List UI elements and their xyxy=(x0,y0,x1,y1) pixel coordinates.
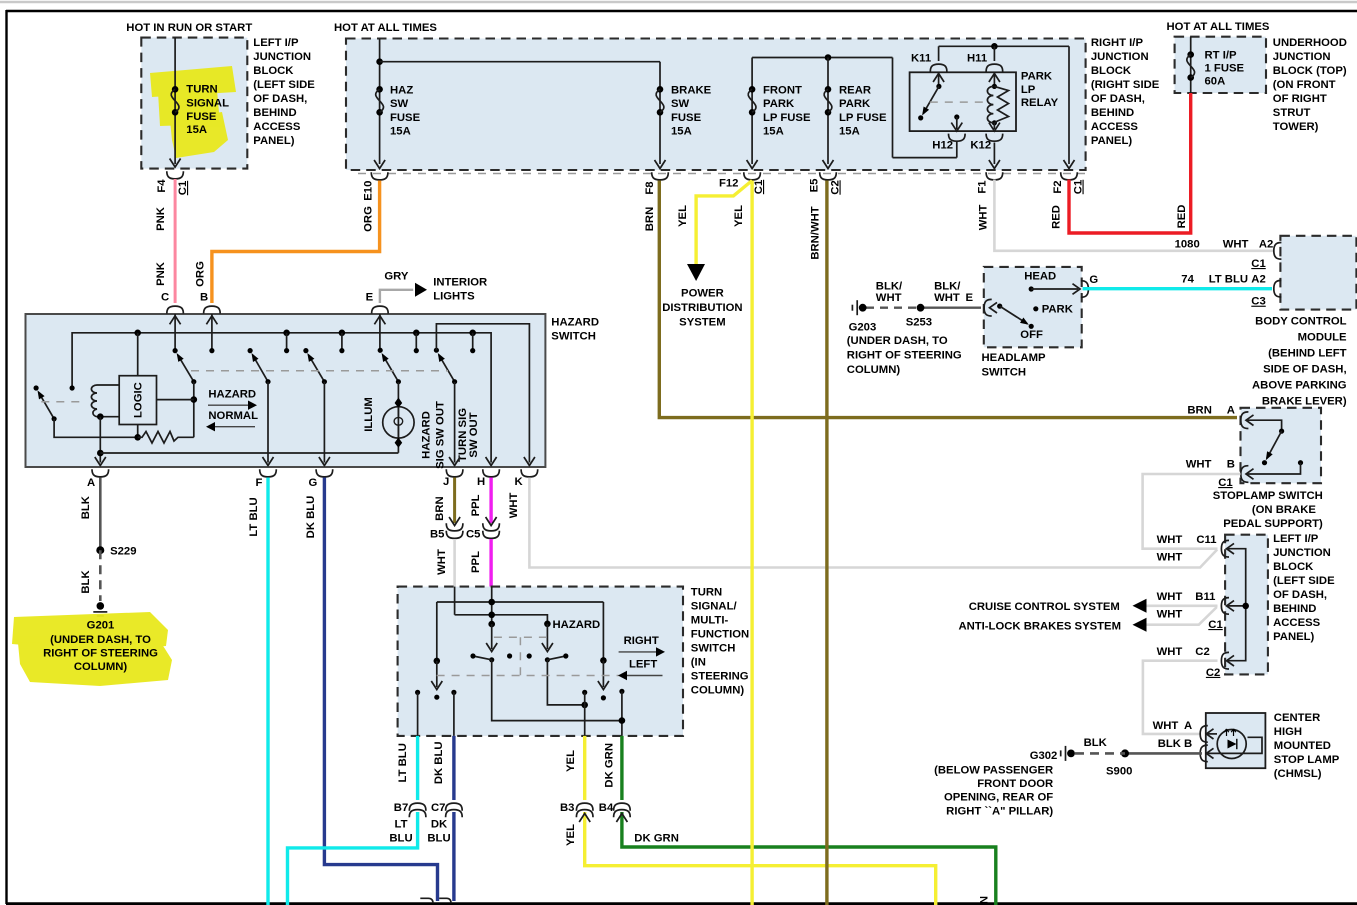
svg-text:POWER: POWER xyxy=(681,287,724,299)
svg-text:PNK: PNK xyxy=(155,261,167,286)
svg-text:MODULE: MODULE xyxy=(1298,332,1347,344)
svg-text:PARK: PARK xyxy=(839,98,871,110)
svg-text:(LEFT SIDE: (LEFT SIDE xyxy=(1273,575,1335,587)
svg-text:SYSTEM: SYSTEM xyxy=(679,317,725,329)
svg-text:BLU: BLU xyxy=(427,833,450,845)
svg-text:HOT AT ALL TIMES: HOT AT ALL TIMES xyxy=(334,22,437,34)
svg-text:C1: C1 xyxy=(1218,477,1232,489)
svg-text:G203: G203 xyxy=(849,322,877,334)
svg-text:BRAKE: BRAKE xyxy=(671,84,712,96)
svg-text:E10: E10 xyxy=(363,181,375,201)
svg-text:ORG: ORG xyxy=(363,206,375,232)
svg-text:WHT: WHT xyxy=(876,292,902,304)
svg-text:1 FUSE: 1 FUSE xyxy=(1205,63,1245,75)
svg-text:WHT: WHT xyxy=(977,204,989,230)
svg-text:G: G xyxy=(309,477,318,489)
svg-text:B11: B11 xyxy=(1195,591,1215,603)
svg-text:BEHIND: BEHIND xyxy=(253,107,296,119)
svg-text:WHT: WHT xyxy=(508,492,520,518)
svg-text:60A: 60A xyxy=(1205,76,1226,88)
svg-text:SWITCH: SWITCH xyxy=(982,367,1027,379)
svg-text:GRY: GRY xyxy=(384,271,409,283)
svg-text:15A: 15A xyxy=(763,126,784,138)
svg-text:WHT: WHT xyxy=(1157,646,1183,658)
svg-text:WHT: WHT xyxy=(934,292,960,304)
svg-text:PARK: PARK xyxy=(1021,71,1053,83)
svg-text:B: B xyxy=(200,292,208,304)
svg-text:(BELOW PASSENGER: (BELOW PASSENGER xyxy=(934,765,1053,777)
svg-text:RIGHT OF STEERING: RIGHT OF STEERING xyxy=(847,350,962,362)
svg-text:SIGNAL: SIGNAL xyxy=(186,97,229,109)
svg-text:A2: A2 xyxy=(1259,239,1273,251)
svg-text:HEAD: HEAD xyxy=(1024,270,1056,282)
svg-text:YEL: YEL xyxy=(733,205,745,227)
svg-text:FRONT DOOR: FRONT DOOR xyxy=(977,778,1053,790)
svg-text:H11: H11 xyxy=(967,53,987,65)
svg-text:C7: C7 xyxy=(431,802,445,814)
svg-text:J: J xyxy=(443,476,449,488)
svg-text:WHT: WHT xyxy=(1186,459,1212,471)
svg-text:S900: S900 xyxy=(1106,765,1132,777)
svg-text:BODY CONTROL: BODY CONTROL xyxy=(1255,316,1347,328)
svg-text:ACCESS: ACCESS xyxy=(253,121,301,133)
svg-text:(LEFT SIDE: (LEFT SIDE xyxy=(253,79,315,91)
svg-text:ABOVE PARKING: ABOVE PARKING xyxy=(1252,380,1347,392)
svg-text:G: G xyxy=(1089,274,1098,286)
svg-text:H12: H12 xyxy=(932,139,953,151)
svg-text:HAZARD: HAZARD xyxy=(421,411,433,459)
svg-text:SW: SW xyxy=(390,98,409,110)
svg-text:F8: F8 xyxy=(644,181,656,194)
svg-text:HOT AT ALL TIMES: HOT AT ALL TIMES xyxy=(1167,21,1270,33)
svg-text:LP FUSE: LP FUSE xyxy=(763,112,811,124)
svg-text:BLU: BLU xyxy=(389,833,412,845)
svg-text:PEDAL SUPPORT): PEDAL SUPPORT) xyxy=(1223,518,1323,530)
svg-text:YEL: YEL xyxy=(677,205,689,227)
svg-text:RIGHT ``A" PILLAR): RIGHT ``A" PILLAR) xyxy=(946,806,1053,818)
svg-text:HEADLAMP: HEADLAMP xyxy=(982,352,1046,364)
svg-text:BEHIND: BEHIND xyxy=(1273,603,1316,615)
svg-text:PNK: PNK xyxy=(155,206,167,231)
svg-text:BLK/: BLK/ xyxy=(934,281,961,293)
svg-text:OF RIGHT: OF RIGHT xyxy=(1273,93,1327,105)
svg-text:BLOCK: BLOCK xyxy=(1273,561,1314,573)
svg-text:15A: 15A xyxy=(671,126,692,138)
svg-text:C3: C3 xyxy=(1251,296,1265,308)
svg-text:HIGH: HIGH xyxy=(1274,726,1302,738)
svg-text:UNDERHOOD: UNDERHOOD xyxy=(1273,37,1347,49)
svg-text:C1: C1 xyxy=(1208,619,1222,631)
svg-text:RIGHT I/P: RIGHT I/P xyxy=(1091,37,1144,49)
svg-text:DISTRIBUTION: DISTRIBUTION xyxy=(662,302,742,314)
svg-text:TOWER): TOWER) xyxy=(1273,121,1319,133)
svg-text:LEFT I/P: LEFT I/P xyxy=(253,37,299,49)
svg-text:LEFT I/P: LEFT I/P xyxy=(1273,533,1319,545)
svg-text:(UNDER DASH, TO: (UNDER DASH, TO xyxy=(50,634,151,646)
svg-text:ACCESS: ACCESS xyxy=(1273,617,1321,629)
svg-text:WHT: WHT xyxy=(1157,609,1183,621)
svg-text:C2: C2 xyxy=(1206,667,1220,679)
svg-text:RELAY: RELAY xyxy=(1021,97,1059,109)
svg-text:LT BLU: LT BLU xyxy=(1209,274,1248,286)
svg-text:COLUMN): COLUMN) xyxy=(691,685,745,697)
svg-text:OF DASH,: OF DASH, xyxy=(253,93,307,105)
svg-text:A: A xyxy=(1227,405,1235,417)
svg-text:REAR: REAR xyxy=(839,84,871,96)
svg-text:G201: G201 xyxy=(87,620,115,632)
svg-text:JUNCTION: JUNCTION xyxy=(1273,547,1331,559)
svg-text:G302: G302 xyxy=(1030,750,1058,762)
svg-text:WHT: WHT xyxy=(1157,534,1183,546)
svg-text:C1: C1 xyxy=(753,180,765,194)
svg-text:JUNCTION: JUNCTION xyxy=(1273,51,1331,63)
svg-text:E: E xyxy=(366,292,374,304)
svg-text:B4: B4 xyxy=(599,802,614,814)
svg-text:PARK: PARK xyxy=(763,98,795,110)
svg-text:RIGHT: RIGHT xyxy=(624,635,659,647)
svg-text:C5: C5 xyxy=(466,528,480,540)
svg-text:FUSE: FUSE xyxy=(186,111,217,123)
svg-text:WHT: WHT xyxy=(1157,552,1183,564)
svg-text:LT BLU: LT BLU xyxy=(397,743,409,782)
svg-text:CENTER: CENTER xyxy=(1274,712,1320,724)
svg-text:1080: 1080 xyxy=(1175,239,1200,251)
svg-text:DK GRN: DK GRN xyxy=(634,833,679,845)
svg-text:DK BLU: DK BLU xyxy=(305,496,317,539)
svg-text:PANEL): PANEL) xyxy=(253,135,294,147)
svg-text:PPL: PPL xyxy=(470,551,482,573)
svg-text:BEHIND: BEHIND xyxy=(1091,107,1134,119)
svg-text:C1: C1 xyxy=(1251,258,1265,270)
svg-text:PPL: PPL xyxy=(470,494,482,516)
svg-text:SWITCH: SWITCH xyxy=(691,643,736,655)
svg-text:HOT IN RUN OR START: HOT IN RUN OR START xyxy=(126,22,252,34)
svg-text:HAZARD: HAZARD xyxy=(551,317,599,329)
svg-text:C1: C1 xyxy=(177,181,189,195)
svg-text:BRN/WHT: BRN/WHT xyxy=(810,206,822,259)
svg-text:E5: E5 xyxy=(809,179,821,193)
svg-text:BRN: BRN xyxy=(1187,405,1211,417)
svg-text:(ON BRAKE: (ON BRAKE xyxy=(1252,504,1316,516)
svg-text:MOUNTED: MOUNTED xyxy=(1274,740,1331,752)
svg-text:SW OUT: SW OUT xyxy=(468,412,480,457)
svg-text:LEFT: LEFT xyxy=(629,659,657,671)
svg-text:RED: RED xyxy=(1050,205,1062,229)
svg-text:FUSE: FUSE xyxy=(671,112,702,124)
svg-text:YEL: YEL xyxy=(565,750,577,772)
svg-text:SW: SW xyxy=(671,98,690,110)
svg-text:F4: F4 xyxy=(156,179,168,193)
svg-text:BLK: BLK xyxy=(80,495,92,519)
svg-text:ILLUM: ILLUM xyxy=(363,397,375,432)
svg-text:HAZARD: HAZARD xyxy=(553,619,601,631)
svg-text:LP FUSE: LP FUSE xyxy=(839,112,887,124)
svg-text:BLK: BLK xyxy=(1158,738,1182,750)
svg-text:LT BLU: LT BLU xyxy=(248,497,260,536)
svg-text:C2: C2 xyxy=(1195,646,1209,658)
svg-text:MULTI-: MULTI- xyxy=(691,615,729,627)
svg-text:BLOCK: BLOCK xyxy=(253,65,294,77)
svg-text:SWITCH: SWITCH xyxy=(551,330,596,342)
svg-text:ORG: ORG xyxy=(194,261,206,287)
svg-text:S229: S229 xyxy=(110,546,136,558)
svg-text:ANTI-LOCK BRAKES SYSTEM: ANTI-LOCK BRAKES SYSTEM xyxy=(958,621,1121,633)
svg-text:A2: A2 xyxy=(1251,274,1265,286)
svg-text:(UNDER DASH, TO: (UNDER DASH, TO xyxy=(847,335,948,347)
svg-text:WHT: WHT xyxy=(1153,720,1179,732)
svg-text:OPENING, REAR OF: OPENING, REAR OF xyxy=(944,792,1053,804)
svg-text:C: C xyxy=(161,292,169,304)
svg-text:F12: F12 xyxy=(719,178,738,190)
svg-text:BLK/: BLK/ xyxy=(876,281,903,293)
svg-text:C1: C1 xyxy=(1073,180,1085,194)
svg-text:FUNCTION: FUNCTION xyxy=(691,629,749,641)
svg-text:SIDE OF DASH,: SIDE OF DASH, xyxy=(1263,364,1346,376)
svg-text:DK GRN: DK GRN xyxy=(979,896,991,905)
svg-text:LT: LT xyxy=(395,819,408,831)
svg-text:LP: LP xyxy=(1021,84,1036,96)
svg-text:K12: K12 xyxy=(970,139,991,151)
svg-text:LIGHTS: LIGHTS xyxy=(433,291,475,303)
svg-text:WHT: WHT xyxy=(1157,591,1183,603)
svg-text:H: H xyxy=(477,476,485,488)
svg-text:BRN: BRN xyxy=(644,207,656,231)
svg-text:WHT: WHT xyxy=(436,549,448,575)
svg-text:F: F xyxy=(256,477,263,489)
svg-text:74: 74 xyxy=(1181,274,1194,286)
svg-text:TURN: TURN xyxy=(691,587,722,599)
svg-text:RT I/P: RT I/P xyxy=(1205,50,1237,62)
svg-text:OF DASH,: OF DASH, xyxy=(1091,93,1145,105)
svg-text:RIGHT OF STEERING: RIGHT OF STEERING xyxy=(43,647,158,659)
svg-text:COLUMN): COLUMN) xyxy=(74,661,128,673)
svg-text:BRAKE LEVER): BRAKE LEVER) xyxy=(1262,396,1347,408)
svg-text:B7: B7 xyxy=(394,802,408,814)
svg-text:STRUT: STRUT xyxy=(1273,107,1311,119)
svg-text:JUNCTION: JUNCTION xyxy=(253,51,311,63)
svg-text:ACCESS: ACCESS xyxy=(1091,121,1139,133)
svg-text:LOGIC: LOGIC xyxy=(133,382,145,418)
svg-text:HAZARD: HAZARD xyxy=(208,389,256,401)
svg-text:(CHMSL): (CHMSL) xyxy=(1274,768,1322,780)
svg-text:STOP LAMP: STOP LAMP xyxy=(1274,754,1340,766)
svg-text:B: B xyxy=(1184,738,1192,750)
svg-text:BLOCK (TOP): BLOCK (TOP) xyxy=(1273,65,1347,77)
svg-text:FRONT: FRONT xyxy=(763,84,802,96)
svg-text:15A: 15A xyxy=(839,126,860,138)
svg-text:OF DASH,: OF DASH, xyxy=(1273,589,1327,601)
svg-text:(ON FRONT: (ON FRONT xyxy=(1273,79,1336,91)
svg-text:RED: RED xyxy=(1176,205,1188,229)
svg-text:PANEL): PANEL) xyxy=(1273,631,1314,643)
svg-text:PARK: PARK xyxy=(1042,304,1074,316)
svg-text:K11: K11 xyxy=(911,53,931,65)
svg-text:FUSE: FUSE xyxy=(390,112,421,124)
svg-text:OFF: OFF xyxy=(1020,329,1043,341)
svg-text:A: A xyxy=(1184,720,1192,732)
svg-text:STEERING: STEERING xyxy=(691,671,749,683)
svg-text:C11: C11 xyxy=(1196,534,1216,546)
svg-text:JUNCTION: JUNCTION xyxy=(1091,51,1149,63)
svg-text:YEL: YEL xyxy=(565,824,577,846)
svg-text:SIGNAL/: SIGNAL/ xyxy=(691,601,738,613)
svg-text:HAZ: HAZ xyxy=(390,84,413,96)
svg-text:F1: F1 xyxy=(977,180,989,193)
svg-text:(IN: (IN xyxy=(691,657,706,669)
svg-text:TURN: TURN xyxy=(186,84,217,96)
svg-text:B: B xyxy=(1227,459,1235,471)
svg-text:BLK: BLK xyxy=(80,570,92,594)
svg-text:DK GRN: DK GRN xyxy=(604,743,616,788)
svg-text:COLUMN): COLUMN) xyxy=(847,364,901,376)
svg-text:BLOCK: BLOCK xyxy=(1091,65,1132,77)
svg-text:A: A xyxy=(87,477,95,489)
svg-text:E: E xyxy=(966,292,974,304)
svg-text:15A: 15A xyxy=(390,126,411,138)
svg-text:F2: F2 xyxy=(1052,180,1064,193)
svg-text:BRN: BRN xyxy=(434,496,446,520)
svg-text:INTERIOR: INTERIOR xyxy=(433,277,487,289)
svg-text:S253: S253 xyxy=(906,317,932,329)
svg-text:STOPLAMP SWITCH: STOPLAMP SWITCH xyxy=(1213,490,1323,502)
svg-text:(BEHIND LEFT: (BEHIND LEFT xyxy=(1268,348,1347,360)
svg-text:CRUISE CONTROL SYSTEM: CRUISE CONTROL SYSTEM xyxy=(969,601,1120,613)
svg-text:B3: B3 xyxy=(560,802,574,814)
svg-text:15A: 15A xyxy=(186,124,207,136)
svg-text:(RIGHT SIDE: (RIGHT SIDE xyxy=(1091,79,1160,91)
svg-text:WHT: WHT xyxy=(1223,239,1249,251)
svg-text:PANEL): PANEL) xyxy=(1091,135,1132,147)
svg-text:K: K xyxy=(515,476,524,488)
svg-text:BLK: BLK xyxy=(1084,737,1108,749)
svg-text:DK: DK xyxy=(431,819,448,831)
svg-text:DK BLU: DK BLU xyxy=(433,741,445,784)
svg-text:C2: C2 xyxy=(830,180,842,194)
svg-text:SIG SW OUT: SIG SW OUT xyxy=(435,401,447,469)
svg-text:B5: B5 xyxy=(430,528,444,540)
svg-text:NORMAL: NORMAL xyxy=(208,410,258,422)
